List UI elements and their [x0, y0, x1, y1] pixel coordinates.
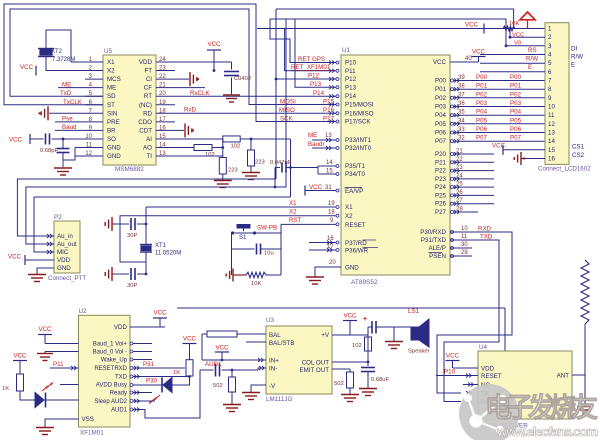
svg-text:31: 31 — [325, 185, 332, 191]
P2 pin names — [57, 233, 77, 272]
U2 pin names — [82, 324, 128, 423]
connector P2 Connect_PTT body — [48, 214, 86, 282]
svg-text:13: 13 — [548, 130, 555, 137]
svg-text:RT: RT — [144, 93, 152, 100]
resistor 502 left — [213, 370, 236, 404]
svg-text:13: 13 — [325, 133, 332, 139]
svg-text:11.0520M: 11.0520M — [155, 251, 181, 257]
svg-text:102: 102 — [205, 152, 215, 158]
svg-text:P01: P01 — [476, 83, 488, 90]
svg-text:P11: P11 — [345, 68, 356, 75]
svg-text:XT1: XT1 — [155, 243, 167, 249]
svg-text:AT89S52: AT89S52 — [351, 279, 378, 286]
watermark url text — [496, 424, 598, 439]
svg-text:14: 14 — [326, 160, 333, 166]
svg-text:MSM6882: MSM6882 — [115, 166, 144, 173]
svg-text:P17: P17 — [323, 115, 335, 122]
svg-text:R/W: R/W — [571, 54, 583, 61]
svg-text:VCC: VCC — [215, 345, 229, 352]
svg-text:P26: P26 — [435, 201, 447, 208]
svg-text:11: 11 — [548, 112, 555, 119]
svg-text:P16: P16 — [323, 107, 335, 114]
svg-text:12: 12 — [548, 121, 555, 128]
svg-text:P05: P05 — [510, 117, 522, 124]
svg-text:VCC: VCC — [13, 353, 27, 360]
svg-text:P00: P00 — [476, 74, 488, 81]
resistor 502 right on EMIT OUT — [332, 369, 354, 394]
resistor 10K zigzag — [246, 272, 281, 287]
LCD side labels DI R/W E CS1 CS2 — [571, 46, 585, 160]
svg-text:P25: P25 — [435, 192, 447, 199]
ground under speaker wire — [385, 327, 403, 349]
svg-text:SCK: SCK — [280, 116, 294, 123]
svg-text:AI: AI — [146, 136, 152, 143]
svg-text:33: 33 — [458, 127, 465, 133]
svg-text:P24: P24 — [435, 184, 447, 191]
polarized capacitor to speaker — [363, 316, 411, 362]
svg-text:28: 28 — [456, 207, 463, 213]
svg-text:1K: 1K — [2, 386, 9, 392]
svg-text:20: 20 — [159, 91, 166, 97]
svg-text:DI: DI — [571, 46, 577, 53]
svg-text:P36/WR: P36/WR — [345, 248, 369, 255]
svg-text:2: 2 — [548, 34, 552, 41]
svg-text:ALE/P: ALE/P — [428, 245, 446, 252]
svg-text:RST: RST — [289, 217, 302, 224]
voice chip U2 XF1M01 body — [79, 308, 131, 437]
ground under right 223 — [242, 173, 260, 180]
svg-text:TxCLK: TxCLK — [63, 99, 83, 106]
svg-text:Baud: Baud — [62, 124, 77, 131]
wire COL OUT junction — [332, 351, 369, 366]
capacitor 30P lower — [112, 268, 146, 289]
U1 timer pins T1 T0 — [318, 160, 366, 178]
svg-text:EA/VP: EA/VP — [345, 188, 363, 195]
svg-text:12: 12 — [85, 151, 92, 157]
svg-text:0.047uF: 0.047uF — [270, 160, 292, 166]
wire Pse into U5 PRE — [55, 116, 85, 123]
net label P14 — [313, 90, 325, 97]
wire RD row to U1 P16 with RxD and MISO labels — [175, 107, 336, 115]
crystal XT1 11.0520M — [140, 207, 181, 275]
svg-text:X1: X1 — [107, 59, 115, 66]
wire U2 RXD with P31 label — [130, 361, 185, 370]
U1 GND pin and ground — [306, 260, 359, 284]
svg-text:18: 18 — [159, 108, 166, 114]
svg-text:P21: P21 — [435, 159, 447, 166]
wire LCD pin2 — [509, 27, 545, 38]
svg-text:P01: P01 — [510, 83, 522, 90]
ground under left 223 — [214, 181, 232, 188]
svg-text:P10: P10 — [444, 369, 456, 376]
sideways ground for reset network — [226, 269, 246, 282]
svg-text:P13: P13 — [310, 81, 322, 88]
svg-text:17: 17 — [159, 117, 166, 123]
svg-text:30: 30 — [461, 242, 468, 248]
wire IN+ with VCC bias — [202, 345, 266, 363]
wire P10 to U4 RESET — [436, 369, 478, 378]
svg-text:P07: P07 — [476, 135, 488, 142]
svg-text:RET_XF1M01: RET_XF1M01 — [291, 64, 331, 71]
svg-text:VCC: VCC — [153, 310, 167, 317]
power VCC to 1K for TXD LED — [183, 336, 197, 360]
svg-text:3: 3 — [548, 43, 552, 50]
svg-text:15: 15 — [326, 169, 333, 175]
U4 pin names — [481, 366, 569, 407]
power VCC at P2 VDD — [8, 254, 54, 266]
wire U5 TI to 223 top — [175, 155, 223, 157]
svg-text:RxD: RxD — [184, 107, 197, 114]
svg-text:P20: P20 — [435, 151, 447, 158]
svg-text:RS: RS — [528, 47, 537, 54]
svg-text:24: 24 — [456, 173, 463, 179]
svg-text:E: E — [528, 64, 532, 71]
wire P2 Au_out loop — [26, 19, 286, 246]
svg-text:21: 21 — [159, 83, 166, 89]
svg-text:VDD: VDD — [114, 324, 128, 331]
svg-text:CI: CI — [146, 76, 152, 83]
U1 serial and control pins — [420, 226, 493, 261]
capacitor on ground leg of U5 — [57, 138, 86, 167]
svg-text:XF1M01: XF1M01 — [80, 430, 104, 437]
net label SCK on P17 line — [280, 116, 294, 123]
svg-text:IN+: IN+ — [269, 358, 279, 365]
svg-text:PSEN: PSEN — [429, 253, 446, 260]
svg-text:13: 13 — [159, 151, 166, 157]
svg-text:C0402: C0402 — [234, 76, 251, 82]
wire top line 2 to LCD pin3 chain — [270, 19, 545, 46]
U3 -V ground — [242, 385, 266, 400]
svg-text:MOSI: MOSI — [280, 99, 296, 106]
wire long audio rail — [177, 308, 505, 351]
svg-text:P34/T0: P34/T0 — [345, 171, 366, 178]
svg-text:S1: S1 — [239, 235, 247, 241]
svg-text:15: 15 — [548, 147, 555, 154]
svg-text:PRE: PRE — [107, 119, 120, 126]
U2 left connections: VCC for Baud_1 — [38, 326, 79, 344]
microcontroller U1 AT89S52 body — [341, 47, 450, 286]
red VCC arrow above LCD — [520, 12, 535, 29]
connector Connect_LCD1602 body — [538, 23, 591, 173]
svg-text:P31/TXD: P31/TXD — [421, 237, 447, 244]
svg-text:9: 9 — [548, 95, 552, 102]
svg-text:P05: P05 — [435, 121, 447, 128]
svg-text:19: 19 — [328, 201, 335, 207]
svg-text:P17/SCK: P17/SCK — [345, 119, 371, 126]
svg-text:BR: BR — [107, 127, 116, 134]
svg-text:TXD: TXD — [480, 234, 493, 241]
wires RS RW E into LCD pins 4-6 — [480, 47, 545, 72]
capacitor AUD1 coupling into IN- — [200, 361, 266, 377]
svg-text:P05: P05 — [476, 117, 488, 124]
U2 right stubs Vol+ Vol- Wake — [130, 342, 152, 361]
svg-text:6: 6 — [548, 69, 552, 76]
ground for Baud_0 — [37, 352, 79, 361]
U1 P20-P27 pins — [435, 149, 494, 217]
svg-text:VDD: VDD — [57, 257, 71, 264]
svg-text:0.68pF: 0.68pF — [40, 148, 59, 154]
svg-text:Wake_Up: Wake_Up — [101, 358, 128, 364]
wire top line 1 to LCD area — [276, 9, 514, 29]
svg-text:P02: P02 — [476, 91, 488, 98]
svg-text:P13: P13 — [345, 84, 357, 91]
svg-text:VDD: VDD — [481, 366, 495, 373]
wire net RET_XF1M01 into U1 P11 — [285, 29, 336, 72]
ground at P2 GND — [28, 268, 54, 282]
svg-text:P14: P14 — [313, 90, 325, 97]
resistor on BAL line — [202, 331, 266, 360]
svg-text:P12: P12 — [345, 76, 357, 83]
svg-text:16: 16 — [327, 236, 334, 242]
svg-text:Baud_0 Vol -: Baud_0 Vol - — [93, 350, 127, 356]
LED D1 power indicator — [20, 391, 79, 408]
svg-text:Ready: Ready — [110, 391, 127, 397]
svg-text:26: 26 — [456, 190, 463, 196]
svg-text:19: 19 — [159, 100, 166, 106]
svg-text:ME: ME — [107, 85, 116, 92]
svg-text:P04: P04 — [510, 109, 522, 116]
wire Baud into U5 BR — [55, 124, 85, 131]
svg-text:P30: P30 — [146, 378, 158, 385]
U2 VSS ground — [36, 419, 79, 435]
svg-text:TxD: TxD — [60, 90, 72, 97]
svg-text:P2: P2 — [54, 214, 62, 221]
wire RXD from U1 to U4 TX — [437, 232, 512, 393]
svg-text:P35/T1: P35/T1 — [345, 163, 366, 170]
wire MIC line from P2 to coupling node — [34, 196, 291, 198]
ground under C0402 — [223, 95, 240, 102]
LED D1 emission arrows — [42, 383, 53, 392]
svg-text:P33/INT1: P33/INT1 — [345, 137, 372, 144]
svg-text:Speaker: Speaker — [408, 349, 430, 355]
svg-text:RESETRXD: RESETRXD — [94, 366, 127, 372]
svg-text:VCC: VCC — [343, 313, 357, 320]
svg-text:VCC: VCC — [433, 59, 447, 66]
svg-text:EMIT OUT: EMIT OUT — [300, 367, 330, 374]
svg-text:VCC: VCC — [20, 64, 34, 71]
resistor 1K left — [2, 374, 24, 392]
svg-text:10K: 10K — [509, 21, 519, 27]
svg-text:Sleep AUD2: Sleep AUD2 — [94, 399, 127, 405]
svg-text:27: 27 — [456, 198, 463, 204]
power VCC to 1K for left LED — [13, 353, 27, 375]
wire TXD from U1 to U4 RX — [444, 240, 499, 402]
svg-text:CDO: CDO — [138, 119, 152, 126]
svg-text:X2: X2 — [345, 213, 353, 220]
svg-text:LM111JG: LM111JG — [266, 396, 292, 403]
svg-text:U5: U5 — [104, 48, 113, 55]
svg-text:U3: U3 — [266, 317, 275, 324]
wire U2 AUD1 to amplifier — [130, 370, 200, 418]
sideways ground at U5 CDT pin — [175, 123, 194, 137]
U1 INT pins — [308, 132, 372, 152]
svg-text:AUD1: AUD1 — [111, 408, 128, 414]
svg-text:GND: GND — [107, 153, 121, 160]
capacitor 10u — [232, 233, 282, 275]
svg-text:Connect_LCD1602: Connect_LCD1602 — [538, 166, 591, 173]
svg-text:Au_out: Au_out — [57, 241, 77, 248]
svg-text:21: 21 — [456, 149, 463, 155]
antenna zigzag — [572, 260, 589, 375]
U2 AVDD stub — [60, 384, 79, 386]
wire LCD pin15 VCC — [492, 143, 545, 155]
capacitor C0402 — [175, 62, 251, 95]
ground under right 502 — [341, 395, 359, 402]
svg-text:P15: P15 — [323, 98, 335, 105]
svg-text:29: 29 — [461, 250, 468, 256]
sideways ground at U5 SIN pin — [38, 106, 85, 120]
svg-text:U1: U1 — [342, 47, 351, 54]
svg-text:RD: RD — [143, 110, 152, 117]
U3 BAL/STB stub — [246, 341, 266, 343]
svg-text:BAL: BAL — [269, 332, 281, 339]
module U4 GPS_RECIVER body — [478, 344, 572, 430]
svg-text:502: 502 — [213, 383, 223, 389]
svg-text:RxCLK: RxCLK — [190, 90, 210, 97]
svg-text:+V: +V — [321, 332, 330, 339]
svg-text:U2: U2 — [79, 308, 88, 315]
svg-text:P16/MISO: P16/MISO — [345, 110, 374, 117]
wire U2 TXD — [130, 375, 191, 379]
svg-text:CS1: CS1 — [572, 144, 585, 151]
svg-text:4: 4 — [548, 52, 552, 59]
svg-text:MIC: MIC — [57, 249, 69, 256]
svg-text:X2: X2 — [107, 68, 115, 75]
svg-text:P02: P02 — [510, 91, 522, 98]
sideways ground at U5 CI pin — [175, 72, 199, 86]
svg-text:X2: X2 — [289, 209, 297, 216]
svg-text:25: 25 — [456, 182, 463, 188]
net label P17 — [323, 115, 335, 122]
net label TxCLK — [63, 99, 83, 106]
capacitor 0.047uF coupling to T pins — [270, 139, 318, 197]
svg-text:23: 23 — [456, 165, 463, 171]
speaker LS1 — [408, 308, 430, 355]
svg-text:P06: P06 — [435, 130, 447, 137]
wire LCD pin16 with sideways ground — [514, 152, 545, 165]
power VCC for U5 SO line — [9, 134, 30, 144]
svg-text:-V: -V — [269, 383, 276, 390]
svg-text:23: 23 — [159, 66, 166, 72]
U5 left pin stubs with pin numbers 1-12 — [85, 57, 103, 157]
svg-text:223: 223 — [228, 168, 238, 174]
svg-text:P07: P07 — [435, 138, 447, 145]
svg-text:VCC: VCC — [9, 137, 23, 144]
U2 VDD wire to VCC — [130, 310, 167, 328]
svg-text:AO: AO — [143, 145, 152, 152]
svg-text:GND: GND — [345, 265, 359, 272]
svg-text:Connect_PTT: Connect_PTT — [48, 275, 86, 282]
svg-text:1: 1 — [548, 26, 552, 33]
svg-text:502: 502 — [334, 381, 344, 387]
U3 pin names — [269, 332, 330, 390]
net label MOSI on P15 line — [280, 99, 296, 106]
svg-text:16: 16 — [159, 125, 166, 131]
U1 left pin names P10-P17 — [329, 60, 374, 126]
svg-text:ANT: ANT — [557, 373, 570, 380]
svg-text:FT: FT — [144, 68, 152, 75]
svg-text:电子发烧友: 电子发烧友 — [485, 392, 598, 423]
svg-text:30P: 30P — [127, 283, 137, 289]
svg-text:X1: X1 — [289, 200, 297, 207]
svg-text:10: 10 — [461, 226, 468, 232]
svg-text:20: 20 — [329, 260, 336, 266]
svg-text:SO: SO — [107, 136, 116, 143]
svg-text:SD: SD — [107, 93, 116, 100]
svg-text:P11: P11 — [53, 361, 64, 368]
svg-text:223: 223 — [255, 160, 265, 166]
U1 P37/RD P36/WR pins — [309, 236, 378, 255]
svg-text:P04: P04 — [435, 112, 447, 119]
wire XT2 top loop to U5 X1 — [46, 30, 85, 62]
svg-text:ME: ME — [308, 132, 317, 139]
svg-text:30P: 30P — [127, 233, 137, 239]
wire ME into U5 — [58, 81, 85, 88]
svg-text:VCC: VCC — [183, 336, 197, 343]
U2 Ready stub — [130, 391, 152, 395]
svg-text:SW-PB: SW-PB — [257, 225, 277, 232]
svg-text:35: 35 — [458, 110, 465, 116]
svg-text:VDD: VDD — [139, 59, 153, 66]
svg-text:11: 11 — [86, 143, 93, 149]
svg-text:ME: ME — [62, 81, 71, 88]
resistor 1K right — [173, 360, 193, 376]
svg-text:VCC: VCC — [465, 22, 479, 29]
svg-text:102: 102 — [352, 343, 362, 349]
capacitor 0.68pF — [30, 133, 85, 154]
svg-text:Baudr: Baudr — [308, 141, 325, 148]
svg-text:39: 39 — [458, 75, 465, 81]
svg-text:10K: 10K — [251, 281, 261, 287]
svg-text:V0: V0 — [514, 41, 521, 47]
wire P2 MIC to loop — [34, 197, 54, 254]
svg-text:10u: 10u — [264, 251, 274, 257]
power VCC above U5 (FT row) — [207, 41, 221, 72]
svg-text:P03: P03 — [435, 104, 447, 111]
svg-text:GND: GND — [107, 145, 121, 152]
power VCC feeding LCD pin1 line — [465, 22, 484, 34]
svg-text:17: 17 — [327, 244, 334, 250]
svg-text:(NC): (NC) — [139, 102, 152, 109]
svg-text:18: 18 — [328, 210, 335, 216]
ground under U5 audio caps — [54, 168, 72, 175]
comparator U3 LM111JG body — [266, 317, 332, 403]
svg-text:CDT: CDT — [139, 127, 152, 134]
svg-text:P32/INT0: P32/INT0 — [345, 145, 372, 152]
svg-text:P04: P04 — [476, 109, 488, 116]
wire RT row to U1 P14 with RxCLK label — [175, 90, 336, 97]
watermark chinese text — [485, 392, 598, 423]
svg-text:VSS: VSS — [82, 416, 94, 423]
wire X1 line to crystal — [146, 206, 336, 208]
svg-text:XT2: XT2 — [51, 49, 63, 55]
wire X2 line to crystal — [120, 216, 336, 262]
op-amp U5 MSM6882 modem IC body — [103, 48, 156, 173]
ground under 0.68uF — [359, 389, 377, 396]
svg-text:VCC: VCC — [309, 184, 323, 191]
svg-text:10: 10 — [85, 134, 92, 140]
svg-text:X1: X1 — [345, 204, 353, 211]
ground below antenna wire — [577, 375, 593, 414]
svg-text:P27: P27 — [435, 209, 447, 216]
sideways ground for lower 30P — [105, 267, 112, 281]
U3 +V to VCC and 102 resistor — [332, 313, 372, 352]
svg-text:SIN: SIN — [107, 110, 117, 117]
svg-text:37: 37 — [458, 92, 465, 98]
svg-text:P22: P22 — [435, 168, 447, 175]
U5 right pin stubs with pin numbers 24-13 — [156, 57, 175, 157]
wire inner frame loop (TxD net) — [10, 9, 336, 105]
